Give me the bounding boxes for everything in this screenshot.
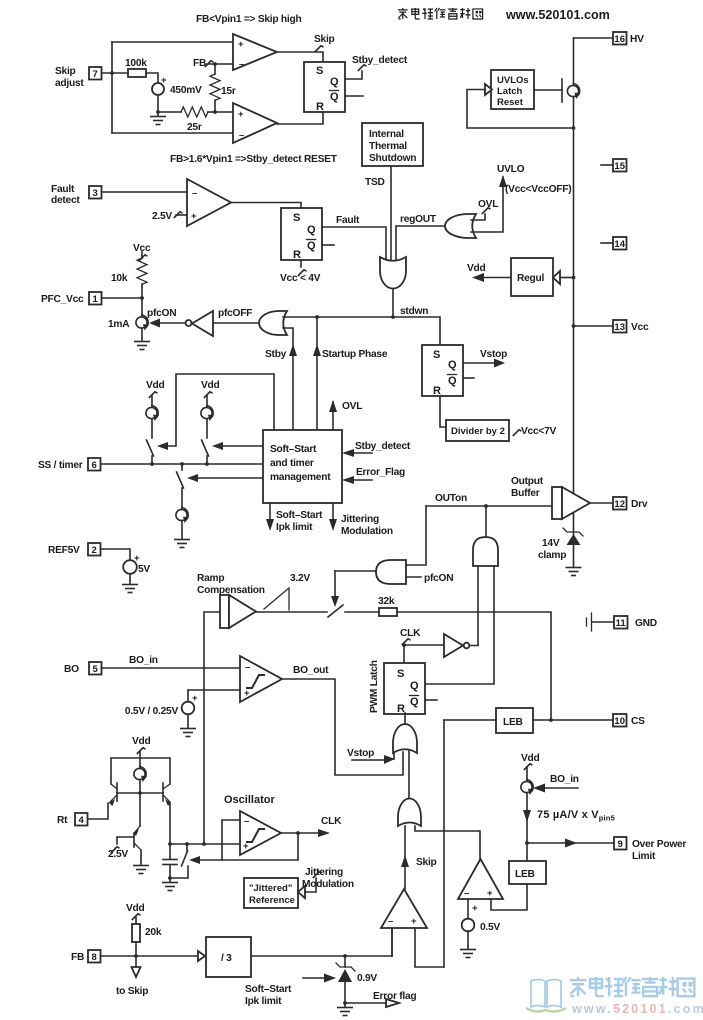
switch 2 <box>202 440 209 456</box>
wire bottom rail to comparator2 minus <box>112 132 233 134</box>
svg-text:Reference: Reference <box>249 895 295 906</box>
svg-text:14: 14 <box>614 239 625 250</box>
svg-text:detect: detect <box>51 195 80 206</box>
wire timing node <box>170 843 240 845</box>
node skip-adjust rail <box>110 71 114 75</box>
box jittered reference <box>244 878 298 908</box>
wire SS main <box>101 463 264 465</box>
svg-text:S: S <box>433 349 440 361</box>
svg-text:adjust: adjust <box>55 78 84 89</box>
watermark CJK site name <box>570 977 695 996</box>
svg-text:Reset: Reset <box>497 97 524 108</box>
wire ramp out to switch <box>256 611 327 613</box>
comparator oscillator <box>240 811 281 855</box>
svg-text:(Vcc<VccOFF): (Vcc<VccOFF) <box>505 184 571 195</box>
wire 32k to CS node <box>397 612 551 720</box>
switch Ct discharge <box>186 844 188 851</box>
svg-text:15: 15 <box>614 161 625 172</box>
wire CS pin to LEB1 <box>533 719 613 721</box>
svg-text:Ramp: Ramp <box>197 573 224 584</box>
svg-text:Over Power: Over Power <box>632 839 686 850</box>
source 0.5V <box>462 919 475 932</box>
svg-text:0.9V: 0.9V <box>357 973 377 984</box>
svg-text:Q: Q <box>330 76 339 88</box>
svg-text:1: 1 <box>93 294 99 305</box>
svg-text:Regul: Regul <box>517 273 544 284</box>
wire Qbar stub <box>322 244 334 246</box>
svg-text:+: + <box>161 75 167 86</box>
output buffer <box>552 487 562 519</box>
wire soft-start ipk arrow <box>303 977 325 979</box>
comparator U2 stby reset <box>233 103 277 143</box>
and-gate pfcON (faces left) <box>376 560 406 584</box>
svg-text:Oscillator: Oscillator <box>224 794 275 806</box>
transistor Q2 right <box>162 783 164 801</box>
box LEB1 <box>496 708 533 733</box>
svg-text:13: 13 <box>614 322 625 333</box>
svg-text:–: – <box>239 59 244 70</box>
resistor 100k <box>128 69 146 77</box>
svg-text:3.2V: 3.2V <box>290 573 310 584</box>
svg-text:+: + <box>238 39 244 50</box>
wire comparator to fault latch <box>231 203 301 209</box>
wire Vstop arrow out <box>463 362 496 364</box>
svg-text:Ipk limit: Ipk limit <box>276 522 313 533</box>
svg-text:to Skip: to Skip <box>116 986 148 997</box>
svg-text:Soft–Start: Soft–Start <box>245 984 292 995</box>
svg-text:CLK: CLK <box>400 628 421 639</box>
wire switch2 control <box>221 445 263 447</box>
svg-text:S: S <box>293 212 300 224</box>
svg-text:+: + <box>244 688 250 699</box>
svg-text:16: 16 <box>614 34 625 45</box>
box UVLOs latch reset <box>491 70 534 109</box>
svg-text:Q: Q <box>330 91 339 103</box>
box internal thermal shutdown <box>362 123 423 166</box>
svg-text:BO_out: BO_out <box>293 665 329 676</box>
svg-text:Error flag: Error flag <box>373 991 416 1002</box>
wire pin3 to comparator <box>102 191 188 193</box>
wire regOUT <box>396 226 445 260</box>
svg-text:BO: BO <box>64 664 79 675</box>
ground SS sink <box>174 535 190 548</box>
or-gate stdwn <box>380 257 406 289</box>
source 1mA <box>136 315 149 331</box>
svg-text:5V: 5V <box>138 564 150 575</box>
ground BO ref <box>180 724 196 737</box>
box Regul <box>511 258 553 296</box>
wire AND control arrow down <box>334 571 336 598</box>
pin 15 <box>601 164 613 166</box>
svg-text:R: R <box>397 703 405 715</box>
svg-text:Vdd: Vdd <box>126 903 145 914</box>
svg-text:Limit: Limit <box>632 851 656 862</box>
resistor 20k <box>132 924 140 942</box>
wire minus input from /3 <box>391 928 393 956</box>
pin 11 GND <box>586 618 588 626</box>
svg-text:pfcON: pfcON <box>424 573 453 584</box>
and-gate OUTon (faces up) <box>473 537 498 566</box>
svg-text:Vdd: Vdd <box>132 736 151 747</box>
wire OVL up arrow <box>332 402 334 430</box>
startup current source HV <box>534 89 562 91</box>
comparator PWM/skip (points up) <box>381 889 427 928</box>
wire jittering modulation down <box>332 503 334 521</box>
wire soft-start ipk down <box>269 503 271 521</box>
wire startup phase <box>316 317 318 430</box>
svg-text:14V: 14V <box>542 538 560 549</box>
svg-text:PWM Latch: PWM Latch <box>369 660 380 713</box>
svg-text:Divider by 2: Divider by 2 <box>451 426 505 437</box>
svg-text:+: + <box>472 903 478 914</box>
svg-text:10k: 10k <box>111 273 128 284</box>
input triangle Regul <box>553 271 560 284</box>
svg-text:11: 11 <box>616 618 627 629</box>
wire to 25r <box>158 111 181 113</box>
buffer ramp compensation <box>220 595 229 628</box>
resistor 32k <box>345 611 379 613</box>
main HV rail <box>573 38 575 536</box>
svg-text:Vcc<7V: Vcc<7V <box>521 426 556 437</box>
wire Vdd out of Regul <box>481 277 511 279</box>
svg-text:FB: FB <box>193 58 206 69</box>
svg-text:UVLOs: UVLOs <box>497 75 529 86</box>
svg-text:Compensation: Compensation <box>197 585 265 596</box>
wire PWM Qbar stub <box>425 699 437 701</box>
wire R input from comparator2 <box>277 112 323 124</box>
svg-text:R: R <box>293 249 301 261</box>
wire UVLO input <box>471 177 503 232</box>
svg-text:Stby_detect: Stby_detect <box>352 55 408 66</box>
wire BO_out <box>282 679 403 775</box>
svg-text:Soft–Start: Soft–Start <box>276 510 323 521</box>
svg-text:Internal: Internal <box>369 129 404 140</box>
svg-text:7: 7 <box>93 69 98 80</box>
svg-text:0.5V / 0.25V: 0.5V / 0.25V <box>125 706 179 717</box>
ground 0.5V <box>460 945 476 958</box>
svg-text:OUTon: OUTon <box>435 493 467 504</box>
svg-text:5: 5 <box>93 664 99 675</box>
wire over power limit pin9 <box>527 842 614 844</box>
ground 1mA <box>134 337 150 350</box>
pin 13 Vcc <box>574 325 614 327</box>
source mirror bias <box>134 767 147 783</box>
svg-text:15r: 15r <box>221 86 236 97</box>
svg-text:Q: Q <box>448 375 457 387</box>
ground 0.9V <box>337 1003 353 1016</box>
comparator U3 fault <box>187 179 231 226</box>
switch 3 discharge <box>181 464 183 470</box>
svg-text:Soft–Start: Soft–Start <box>270 444 317 455</box>
svg-text:Modulation: Modulation <box>302 879 354 890</box>
svg-text:–: – <box>239 130 244 141</box>
svg-text:–: – <box>245 662 250 673</box>
svg-text:Stby: Stby <box>265 349 287 360</box>
box soft-start management <box>263 430 342 503</box>
wire AND top input from OUTon <box>406 506 426 565</box>
svg-text:3: 3 <box>93 188 98 199</box>
transistor Q3 2.5V <box>133 829 139 836</box>
svg-text:32k: 32k <box>378 596 395 607</box>
wire top rail to comparator plus <box>112 41 233 43</box>
svg-text:20k: 20k <box>145 927 162 938</box>
zener 0.9V soft-start clamp <box>344 956 346 967</box>
svg-text:Vdd: Vdd <box>146 380 165 391</box>
svg-text:Output: Output <box>511 476 544 487</box>
wire switch1 control <box>166 374 274 446</box>
wire AND left leg to inverter <box>477 566 479 645</box>
or-gate R pwm <box>393 724 417 753</box>
inverter pfc <box>186 320 192 326</box>
svg-text:Skip: Skip <box>314 34 335 45</box>
node FB <box>213 62 217 66</box>
svg-text:/ 3: / 3 <box>221 953 232 964</box>
svg-text:Fault: Fault <box>51 184 75 195</box>
wire AND right leg to PWM Q <box>425 566 494 684</box>
or-gate pfcOFF <box>259 311 287 335</box>
wire vstop Qbar stub <box>463 377 474 379</box>
svg-text:Startup Phase: Startup Phase <box>322 349 388 360</box>
latch skip SR <box>304 62 345 112</box>
or-gate uvlo/ovl <box>445 214 476 238</box>
box divider by 2 <box>446 420 509 441</box>
svg-text:S: S <box>397 668 404 680</box>
svg-text:www.520101.com: www.520101.com <box>571 1002 703 1016</box>
input triangle /3 <box>198 951 205 961</box>
svg-text:Q: Q <box>410 696 419 708</box>
svg-text:–: – <box>244 816 249 827</box>
svg-text:management: management <box>270 472 331 483</box>
wire BO_in arrow <box>542 787 578 789</box>
wire stby input <box>283 328 293 430</box>
wire FB to /3 <box>101 955 199 957</box>
wire 0.5/0.25 ref <box>188 689 240 691</box>
svg-text:4: 4 <box>79 815 85 826</box>
svg-text:CS: CS <box>631 716 645 727</box>
switch ramp 32k <box>328 605 343 617</box>
svg-text:Ipk limit: Ipk limit <box>245 996 282 1007</box>
svg-text:8: 8 <box>92 952 97 963</box>
wire 100k to 450mV source <box>146 73 158 83</box>
svg-text:+: + <box>238 109 244 120</box>
svg-text:UVLO: UVLO <box>497 164 525 175</box>
svg-text:regOUT: regOUT <box>400 214 437 225</box>
svg-text:LEB: LEB <box>503 717 523 728</box>
sink current source <box>176 508 189 524</box>
svg-text:450mV: 450mV <box>170 85 202 96</box>
svg-text:+: + <box>134 553 140 564</box>
wire skip riser <box>404 826 406 889</box>
wire vstop arrow into or <box>352 759 386 761</box>
box divider /3 <box>206 937 251 977</box>
wire error flag <box>345 1002 386 1004</box>
svg-text:REF5V: REF5V <box>48 545 80 556</box>
wire pfcON AND input stub <box>406 576 421 578</box>
wire opl comparator riser <box>415 826 480 859</box>
svg-text:Latch: Latch <box>497 86 523 97</box>
svg-text:pfcON: pfcON <box>147 308 176 319</box>
wire Qbar stub <box>345 95 363 97</box>
source 450mV <box>152 83 164 95</box>
wire OVL input <box>471 214 485 220</box>
wire oscillator feedback <box>198 833 298 860</box>
latch vstop SR <box>422 345 463 396</box>
wire osc minus input L <box>222 820 240 860</box>
svg-text:0.5V: 0.5V <box>480 922 500 933</box>
resistor 25r <box>181 107 208 117</box>
svg-text:Vdd: Vdd <box>521 753 540 764</box>
mirror trapezoid <box>111 758 170 784</box>
svg-text:TSD: TSD <box>365 177 385 188</box>
watermark book icon <box>531 980 561 1008</box>
wire Q stby_detect <box>345 71 362 79</box>
svg-text:clamp: clamp <box>538 550 566 561</box>
svg-text:10: 10 <box>614 716 625 727</box>
svg-text:HV: HV <box>630 34 644 45</box>
wire UVLOs feedback <box>467 90 574 129</box>
resistor 15r <box>214 64 216 74</box>
svg-text:9: 9 <box>618 839 623 850</box>
svg-text:Thermal: Thermal <box>369 141 407 152</box>
svg-text:100k: 100k <box>125 58 147 69</box>
svg-text:S: S <box>316 65 323 77</box>
svg-text:Rt: Rt <box>57 815 68 826</box>
svg-text:2.5V: 2.5V <box>152 211 172 222</box>
svg-text:www.520101.com: www.520101.com <box>505 8 610 22</box>
wire R vcc<4V <box>300 260 302 267</box>
svg-text:FB<Vpin1 => Skip high: FB<Vpin1 => Skip high <box>196 14 301 25</box>
wire OPL plus from LEB2 <box>491 884 527 910</box>
svg-text:+: + <box>411 916 417 927</box>
wire Fault Q output <box>322 227 386 260</box>
svg-text:and timer: and timer <box>270 458 314 469</box>
pin 12 Drv <box>590 502 613 504</box>
svg-text:Skip: Skip <box>416 857 437 868</box>
svg-text:"Jittered": "Jittered" <box>249 883 292 894</box>
comparator BO brownout <box>240 656 282 702</box>
node CLK <box>402 643 406 647</box>
wire TSD <box>390 166 392 260</box>
svg-text:Q: Q <box>448 359 457 371</box>
svg-text:Jittering: Jittering <box>341 514 379 525</box>
svg-text:stdwn: stdwn <box>400 306 428 317</box>
pin 16 HV <box>574 37 614 39</box>
svg-text:FB: FB <box>71 952 84 963</box>
svg-text:+: + <box>191 211 197 222</box>
wire /3 output <box>251 955 392 957</box>
svg-text:1mA: 1mA <box>108 319 130 330</box>
capacitor Ct <box>169 844 171 859</box>
svg-text:+: + <box>487 888 493 899</box>
svg-text:OVL: OVL <box>478 199 498 210</box>
svg-text:pfcOFF: pfcOFF <box>218 308 252 319</box>
svg-text:2.5V: 2.5V <box>108 849 128 860</box>
svg-text:6: 6 <box>92 460 97 471</box>
or-gate skip/opl <box>398 799 421 827</box>
svg-text:LEB: LEB <box>515 869 535 880</box>
ground 5V <box>122 580 138 593</box>
wire stby_detect into box <box>352 452 372 454</box>
ground 450mV <box>156 110 160 114</box>
svg-text:Q: Q <box>307 240 316 252</box>
svg-text:BO_in: BO_in <box>550 774 579 785</box>
wire or1 to or2 <box>408 750 410 799</box>
wire R from divider <box>440 396 446 427</box>
wire error_flag into box <box>352 479 372 481</box>
svg-text:PFC_Vcc: PFC_Vcc <box>41 294 84 305</box>
svg-text:–: – <box>388 916 393 927</box>
wire CS sense vertical <box>443 720 445 967</box>
svg-text:Vstop: Vstop <box>480 349 507 360</box>
source 0.5V/0.25V <box>182 702 195 715</box>
comparator U1 skip <box>233 34 277 70</box>
wire OUTon <box>426 505 552 507</box>
input triangle jittered <box>298 886 305 898</box>
svg-text:Shutdown: Shutdown <box>369 153 416 164</box>
wire switch3 control <box>196 477 263 479</box>
box LEB2 <box>509 861 546 884</box>
wire BO_in <box>102 667 241 669</box>
svg-text:Buffer: Buffer <box>511 488 540 499</box>
wire stdwn rail to vstop latch <box>283 317 440 345</box>
svg-text:Error_Flag: Error_Flag <box>356 467 405 478</box>
svg-text:Stby_detect: Stby_detect <box>355 441 411 452</box>
svg-text:12: 12 <box>614 499 625 510</box>
transistor Q1 left <box>116 783 118 801</box>
resistor 10k <box>141 252 143 258</box>
svg-text:Vcc < 4V: Vcc < 4V <box>280 273 321 284</box>
svg-text:+: + <box>192 693 198 704</box>
svg-text:Drv: Drv <box>631 499 648 510</box>
latch fault SR <box>281 208 322 260</box>
input triangle UVLOs <box>485 84 492 95</box>
header site name (CJK) <box>398 8 483 19</box>
source 75uA/V <box>521 780 534 796</box>
pin 14 <box>601 242 613 244</box>
svg-text:Vdd: Vdd <box>201 380 220 391</box>
inverter CLK <box>444 634 463 657</box>
svg-text:Modulation: Modulation <box>341 526 393 537</box>
svg-text:2: 2 <box>92 545 97 556</box>
node 15r bottom <box>213 110 217 114</box>
latch PWM SR <box>384 663 425 714</box>
svg-text:BO_in: BO_in <box>129 655 158 666</box>
ground Q3 <box>133 861 149 874</box>
svg-text:SS / timer: SS / timer <box>38 460 83 471</box>
ground Ct <box>162 878 178 891</box>
wire source down to node <box>526 793 528 861</box>
svg-text:Jittering: Jittering <box>305 867 343 878</box>
svg-text:OVL: OVL <box>342 401 362 412</box>
wire R from OR <box>404 713 406 725</box>
svg-text:Vdd: Vdd <box>467 263 486 274</box>
svg-text:Skip: Skip <box>55 66 76 77</box>
svg-text:Q: Q <box>307 224 316 236</box>
wire ramp input tap <box>204 612 220 844</box>
wire pfcON AND output <box>335 570 376 572</box>
svg-text:–: – <box>192 188 197 199</box>
wire plus input from CS line <box>415 928 444 967</box>
svg-text:Q: Q <box>410 680 419 692</box>
ground 14V clamp <box>566 563 582 576</box>
svg-text:–: – <box>464 888 469 899</box>
svg-text:CLK: CLK <box>321 816 342 827</box>
wire mirror base rail <box>117 792 163 794</box>
wire comparator out to latch <box>277 52 323 62</box>
switch 1 <box>147 440 154 456</box>
comparator OPL 0.5V (points up) <box>458 859 503 899</box>
wire to Skip hollow arrow <box>135 956 137 967</box>
